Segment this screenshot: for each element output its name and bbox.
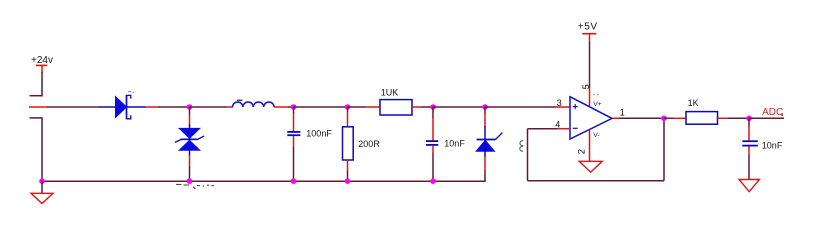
- svg-text:V-: V-: [593, 132, 599, 139]
- inductor L1 coils: [233, 102, 275, 107]
- wire resistor R3 to node G: [718, 117, 750, 119]
- capacitor C3 wire from node G: [748, 118, 750, 140]
- op-amp U1 tiny ref dots: [593, 94, 598, 96]
- capacitor C2 value 10nF: [444, 138, 465, 148]
- wire resistor R2 to ground rail: [347, 160, 349, 181]
- svg-text:ADC: ADC: [762, 107, 783, 118]
- svg-text:200R: 200R: [358, 139, 380, 149]
- feedback tiny gray marks: [520, 141, 524, 151]
- wire node F to resistor R3: [664, 117, 686, 119]
- resistor R2 wire from node C: [347, 107, 349, 127]
- svg-text:V+: V+: [593, 101, 602, 108]
- capacitor C3 value 10nF: [762, 140, 783, 150]
- power flag +24v label: [31, 55, 53, 66]
- svg-text:+24v: +24v: [31, 55, 53, 66]
- wire node E to op-amp pin 3: [485, 106, 570, 108]
- ground symbol G3: [739, 180, 759, 192]
- op-amp U1 pin 2 number: [576, 149, 587, 154]
- ground rail junction dot at R2: [345, 178, 351, 184]
- wire node A to inductor L1: [190, 106, 234, 108]
- wire TVS diode D2 to ground rail: [189, 155, 191, 181]
- TVS diode D2 wire from node A: [189, 107, 191, 126]
- wire connector pin2 down to ground rail: [41, 118, 43, 181]
- wire capacitor C1 to ground rail: [293, 136, 295, 181]
- wire inductor L1 to node B: [274, 106, 293, 108]
- wire input node to diode D1: [29, 106, 116, 108]
- zener diode D3 body: [476, 133, 503, 157]
- node B junction dot: [291, 104, 297, 110]
- wire capacitor C2 to ground rail: [432, 146, 434, 182]
- op-amp U1 pin 5 number: [581, 84, 591, 89]
- resistor R1 value label 1UK: [381, 87, 399, 97]
- capacitor C2 plates: [426, 141, 438, 145]
- op-amp U1 pin 1 number: [620, 108, 625, 118]
- TVS tiny part label on rail: [176, 184, 214, 188]
- svg-text:10nF: 10nF: [444, 138, 465, 148]
- power flag +5V bar: [582, 33, 596, 35]
- capacitor C1 plates: [287, 132, 300, 135]
- wire diode D1 to node A: [127, 106, 190, 108]
- resistor R2 body: [343, 127, 354, 160]
- node E junction dot: [482, 104, 488, 110]
- wire op-amp pin 4 feedback: [528, 118, 665, 180]
- wire zener diode D3 to ground rail corner: [484, 156, 486, 181]
- net label ADC: [762, 107, 783, 118]
- op-amp U1 pin 4 number: [555, 120, 560, 130]
- zener diode D3 wire from node E: [484, 107, 486, 139]
- op-amp U1 pin 3 number: [557, 98, 562, 108]
- wire node B to node C: [294, 106, 348, 108]
- wire +24v flag to connector pin1: [30, 65, 43, 96]
- resistor R3 value 1K: [688, 98, 699, 108]
- diode D1 (schottky) body: [116, 95, 131, 119]
- wire op-amp output pin 1 to node F: [612, 117, 664, 119]
- node F junction dot: [661, 116, 667, 122]
- ground rail junction dot at C2: [430, 178, 436, 184]
- svg-text:2: 2: [576, 149, 587, 154]
- wire node C to resistor R1: [348, 106, 381, 108]
- ground symbol G2: [579, 161, 602, 172]
- capacitor C1 value 100nF: [306, 129, 332, 139]
- inductor L1 tiny ref dash: [237, 99, 243, 101]
- resistor R1 body: [380, 100, 412, 115]
- wire node G to ADC terminal: [749, 117, 784, 119]
- svg-text:3: 3: [557, 98, 562, 108]
- diode D1 tiny ref text: [128, 92, 134, 93]
- svg-text:1: 1: [620, 108, 625, 118]
- ground rail junction dot at C1: [291, 178, 297, 184]
- wire node D to node E: [433, 106, 485, 108]
- op-amp U1 plus input mark: [573, 104, 578, 109]
- capacitor C3 plates: [742, 141, 758, 145]
- resistor R3 body: [686, 112, 718, 125]
- svg-text:10nF: 10nF: [762, 140, 783, 150]
- op-amp U1 V+ label: [593, 101, 602, 108]
- power flag +5V label: [578, 22, 598, 33]
- ground symbol G1: [31, 193, 53, 203]
- node C junction dot: [345, 104, 351, 110]
- node D junction dot: [430, 104, 436, 110]
- node A junction dot: [187, 104, 193, 110]
- wire resistor R1 to node D: [412, 106, 433, 108]
- ground rail wire: [42, 180, 486, 182]
- connector pin 2 stub: [30, 117, 43, 119]
- capacitor C2 wire from node D: [432, 107, 434, 140]
- svg-text:1UK: 1UK: [381, 87, 399, 97]
- node G junction dot: [746, 116, 752, 122]
- TVS diode D2 body: [175, 125, 204, 156]
- resistor R2 value 200R: [358, 139, 380, 149]
- power flag +24v bar: [36, 64, 48, 66]
- wire op-amp pin 2 to ground: [589, 130, 591, 162]
- op-amp U1 V- label: [593, 132, 599, 139]
- svg-text:5: 5: [581, 84, 591, 89]
- ground symbol G1 stem: [41, 181, 43, 193]
- ground rail junction dot at connector: [39, 178, 45, 184]
- capacitor C1 wire from node B: [293, 107, 295, 131]
- ground rail junction dot at TVS: [187, 178, 193, 184]
- svg-text:1K: 1K: [688, 98, 699, 108]
- svg-text:+5V: +5V: [578, 22, 598, 33]
- svg-text:100nF: 100nF: [306, 129, 332, 139]
- wire capacitor C3 to ground: [748, 146, 750, 179]
- op-amp U1 minus input mark: [573, 127, 578, 129]
- op-amp U1 body: [570, 97, 612, 139]
- wire +5V to op-amp pin 5: [589, 34, 591, 107]
